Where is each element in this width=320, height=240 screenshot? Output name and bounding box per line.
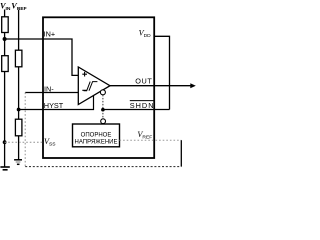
wire VSS dashed: [5, 141, 43, 143]
svg-text:НАПРЯЖЕНИЕ: НАПРЯЖЕНИЕ: [75, 139, 118, 145]
wire VIN stub: [4, 10, 6, 18]
wire R3 to node C: [18, 67, 20, 120]
svg-text:ОПОРНОЕ: ОПОРНОЕ: [81, 132, 112, 138]
wire SHDN rail: [103, 109, 170, 111]
wire VREF vertical: [18, 10, 20, 51]
resistor R1: [2, 17, 9, 33]
svg-text:OUT: OUT: [135, 77, 152, 86]
minus input mark: [82, 89, 87, 91]
svg-text:HYST: HYST: [44, 101, 64, 110]
plus input mark: [82, 72, 87, 77]
ground G2: [14, 159, 22, 161]
wire shutdown stub dotted: [102, 95, 104, 119]
node B junction dot VSS tap: [3, 140, 7, 144]
node C junction dot HYST tap: [17, 108, 21, 112]
resistor R3: [15, 50, 22, 67]
wire VREF pin dashed: [120, 139, 182, 141]
wire bottom rail dashed: [25, 166, 181, 168]
wire R2 to ground: [4, 72, 6, 168]
resistor R4: [15, 119, 22, 136]
svg-text:SHDN: SHDN: [130, 101, 155, 110]
wire IN- net horizontal: [25, 92, 78, 94]
arrowhead OUT: [190, 83, 196, 88]
ground G1: [0, 166, 9, 168]
wire VREF vertical right: [180, 140, 182, 166]
wire VDD pin to rail: [154, 36, 170, 109]
wire R1 to node A: [4, 33, 6, 57]
reference box U2: [73, 124, 120, 147]
resistor R2: [2, 56, 9, 72]
wire HYST rail: [19, 96, 94, 110]
node D junction dot SHDN: [101, 108, 105, 112]
IC U1 boundary box: [43, 17, 154, 158]
op-amp U1A comparator triangle: [78, 67, 110, 105]
svg-text:IN-: IN-: [44, 84, 54, 93]
shutdown bubble on comparator: [100, 90, 105, 95]
wire R4 to ground: [18, 136, 20, 160]
hysteresis symbol: [84, 82, 98, 91]
node A junction dot: [3, 37, 7, 41]
svg-text:IN+: IN+: [44, 30, 56, 39]
wire IN- to bottom rail dotted: [24, 93, 26, 167]
wire IN+ net: [5, 39, 79, 75]
enable bubble on reference box: [101, 119, 106, 124]
wire OUT with arrow: [110, 85, 191, 87]
